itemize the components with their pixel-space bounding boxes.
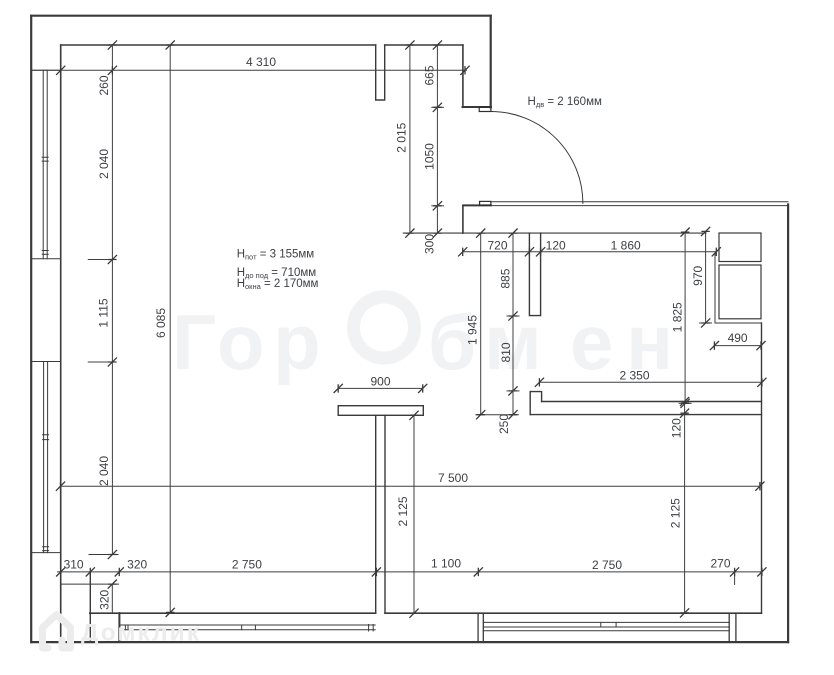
window B1 left connector xyxy=(125,625,128,630)
svg-text:Домклик: Домклик xyxy=(81,620,201,647)
svg-text:2 015: 2 015 xyxy=(395,122,409,152)
window B2 mid dividers xyxy=(601,622,616,627)
dim line 4310 xyxy=(31,69,467,71)
wall: kitchen left xyxy=(462,205,464,233)
furniture: counter left line xyxy=(714,253,716,323)
dim line 7500 xyxy=(61,485,760,487)
dim chain V0 (260/2040/1115/2040) xyxy=(111,45,113,555)
door D1 swing arc xyxy=(491,112,583,204)
watermark GorObmen center xyxy=(172,297,673,386)
svg-text:310: 310 xyxy=(64,557,84,571)
dim line 720/120/1860 xyxy=(463,251,717,253)
wall: interior partition left line xyxy=(375,415,377,613)
svg-text:2 750: 2 750 xyxy=(592,558,622,572)
window W2 bottom divider xyxy=(43,547,49,551)
svg-text:1 860: 1 860 xyxy=(611,239,641,253)
dim chain 665/1050/300 xyxy=(436,45,438,233)
svg-text:Г: Г xyxy=(172,298,216,386)
svg-text:665: 665 xyxy=(423,65,437,85)
window B1 mid dividers xyxy=(242,625,256,630)
door D1 top block xyxy=(479,107,491,112)
window B1 right connector xyxy=(369,625,374,632)
wall: kitchen niche stub xyxy=(529,233,540,316)
dimension labels xyxy=(64,55,748,610)
dim chain V0 bar at 259.5 xyxy=(88,259,116,261)
wall: kitchen lower left edge xyxy=(529,392,531,415)
watermark Domclick house icon xyxy=(43,615,71,649)
wall: outer top xyxy=(31,15,491,17)
dim bottom chain 310/320/2750/1100/2750/270 xyxy=(57,571,762,573)
dim bar at 1825 bottom xyxy=(679,402,692,404)
dim chain 6085 xyxy=(169,45,171,612)
wall: pier inner vertical xyxy=(111,584,113,613)
window B1 bottom-left jamb xyxy=(118,613,120,642)
svg-text:970: 970 xyxy=(691,265,705,285)
door D1 bottom block xyxy=(480,201,491,205)
window W2 bottom edge xyxy=(31,552,61,554)
wall: bottom inner left xyxy=(90,612,376,614)
dim line 490 xyxy=(714,345,761,347)
furniture: counter bottom line xyxy=(715,322,761,324)
svg-text:о: о xyxy=(217,298,265,386)
svg-text:120: 120 xyxy=(546,239,566,253)
wall: hallway double line upper xyxy=(491,201,788,203)
svg-text:810: 810 xyxy=(499,342,513,362)
wall: outer left xyxy=(30,16,32,642)
wall: interior partition right line xyxy=(384,415,386,613)
svg-text:7 500: 7 500 xyxy=(438,471,468,485)
wall: inner right face xyxy=(761,323,763,613)
wall: bottom-left pier vertical xyxy=(89,572,91,642)
dim bar at door bottom jamb xyxy=(431,205,444,207)
dim bottom ref bar xyxy=(475,414,519,416)
svg-text:320: 320 xyxy=(127,557,147,571)
svg-text:320: 320 xyxy=(98,589,112,609)
svg-text:2 125: 2 125 xyxy=(669,498,683,528)
wall: inner left face xyxy=(60,45,62,642)
wall: kitchen lower bottom line xyxy=(530,414,761,416)
dim bar at 970 bottom xyxy=(699,322,712,324)
window B2 bottom-right left jamb xyxy=(478,613,483,642)
svg-text:4 310: 4 310 xyxy=(246,55,276,69)
dim bar at 810/250 split xyxy=(507,390,520,392)
dim chain 120/2125 right xyxy=(684,402,686,613)
svg-text:490: 490 xyxy=(728,331,748,345)
dim chain 1945 xyxy=(480,233,482,415)
window W1 bottom edge xyxy=(31,258,61,260)
wall: kitchen counter line xyxy=(403,232,706,234)
svg-text:Hдв = 2 160мм: Hдв = 2 160мм xyxy=(528,96,602,109)
wall: kitchen lower top line xyxy=(542,401,762,403)
svg-text:720: 720 xyxy=(487,239,507,253)
window W2 glass lines xyxy=(44,362,48,553)
window B2 panes xyxy=(483,622,729,630)
window W1 mid dividers xyxy=(42,157,48,161)
svg-text:2 040: 2 040 xyxy=(97,456,111,486)
svg-text:2 750: 2 750 xyxy=(232,557,262,571)
dim chain 2015 xyxy=(409,45,411,233)
window B1 panes xyxy=(119,625,375,630)
furniture: kitchen box 2 xyxy=(719,265,761,319)
svg-text:6 085: 6 085 xyxy=(154,308,168,338)
svg-text:1 100: 1 100 xyxy=(431,557,461,571)
wall: outer right upper (door side) xyxy=(490,16,492,108)
wall: kitchen lower L-step xyxy=(530,392,541,402)
svg-text:120: 120 xyxy=(670,418,684,438)
svg-text:2 040: 2 040 xyxy=(97,149,111,179)
dim chain 885/810/250 xyxy=(512,233,514,415)
svg-text:2 350: 2 350 xyxy=(619,369,649,383)
svg-text:Hпот = 3 155мм: Hпот = 3 155мм xyxy=(237,249,315,262)
dim bar at door top jamb xyxy=(431,106,444,108)
window W2 left wall top edge xyxy=(31,361,61,363)
wall: bottom inner right xyxy=(385,612,762,614)
dim line 2350 xyxy=(539,381,762,383)
window W1 bottom divider xyxy=(42,251,48,255)
dim chain 2125 left xyxy=(413,415,415,613)
wall: hallway double line lower xyxy=(491,205,788,207)
svg-text:260: 260 xyxy=(97,75,111,95)
dim extension below 270 tick xyxy=(734,572,736,585)
furniture: kitchen box 1 xyxy=(719,233,761,262)
wall: pier mid bar xyxy=(61,583,119,585)
note Hdv xyxy=(237,96,602,291)
wall: top notch stub xyxy=(376,45,385,100)
svg-text:2 125: 2 125 xyxy=(396,496,410,526)
window B2 right jamb xyxy=(729,613,736,642)
dim chain 970 xyxy=(705,231,707,323)
svg-text:250: 250 xyxy=(497,414,511,434)
svg-text:р: р xyxy=(273,298,321,386)
wall: outer right xyxy=(787,205,789,643)
svg-text:270: 270 xyxy=(710,557,730,571)
window W2 mid dividers xyxy=(43,435,49,440)
svg-text:е: е xyxy=(570,298,613,386)
wall: inner top left segment xyxy=(61,44,376,46)
svg-text:1 115: 1 115 xyxy=(97,298,111,327)
wall: pier top bar xyxy=(89,554,118,556)
window W1 glass lines xyxy=(43,70,47,258)
svg-text:1 825: 1 825 xyxy=(671,302,685,332)
wall: entry door inner face xyxy=(462,45,464,107)
svg-text:1 945: 1 945 xyxy=(465,315,479,345)
svg-text:900: 900 xyxy=(370,374,390,388)
dim line 900 xyxy=(338,387,423,389)
window W1 left wall top edge xyxy=(31,69,61,71)
dim chain 1825 xyxy=(684,232,686,403)
wall: inner top right segment xyxy=(385,44,463,46)
wall: outer bottom xyxy=(31,641,788,643)
dim chain V0 bar at 362 xyxy=(88,361,116,363)
dim bar at niche bottom level xyxy=(507,315,520,317)
wall: T-bar xyxy=(338,406,423,416)
ticks xyxy=(56,40,767,617)
svg-text:1050: 1050 xyxy=(423,143,437,170)
svg-text:885: 885 xyxy=(499,268,513,288)
svg-text:300: 300 xyxy=(423,234,437,254)
wall: entry door top jamb xyxy=(463,106,491,108)
